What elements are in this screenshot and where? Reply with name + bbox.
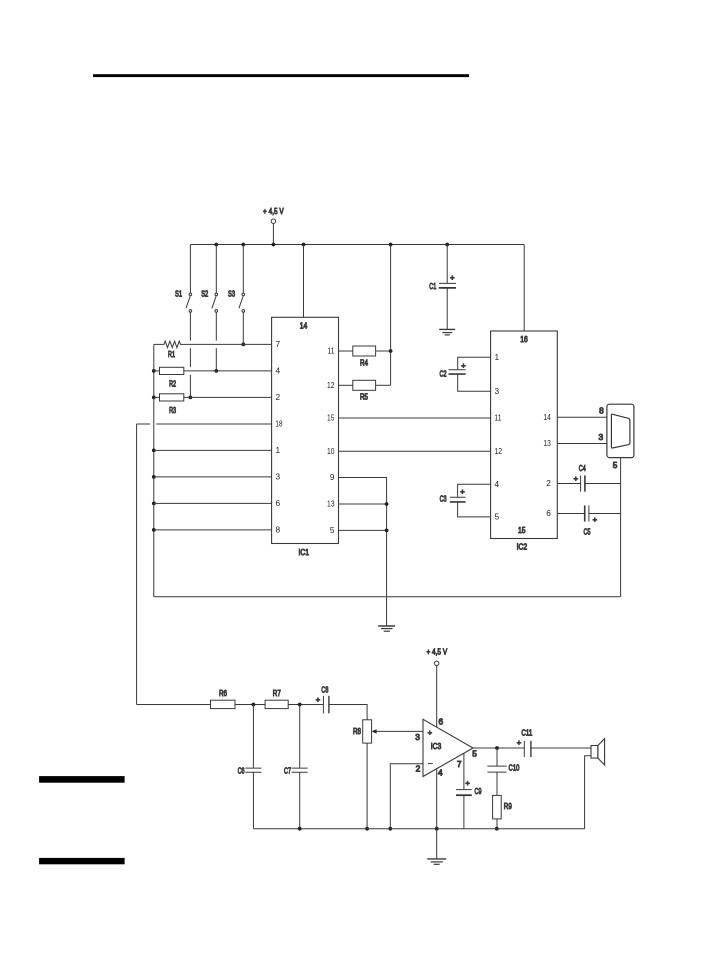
IC1 right pin labels — [327, 346, 335, 535]
wire: IC1 pin 13 to logic ground — [339, 503, 387, 505]
svg-text:R2: R2 — [169, 379, 176, 389]
connector D-inset — [611, 414, 630, 448]
resistor R2 — [160, 367, 184, 374]
capacitor C2 — [449, 370, 466, 374]
capacitor C9 — [456, 790, 472, 796]
label IC3 — [431, 741, 442, 751]
svg-text:5: 5 — [330, 525, 335, 535]
svg-text:1: 1 — [495, 352, 500, 362]
svg-text:7: 7 — [276, 339, 281, 349]
wire: pin 3 line — [154, 476, 272, 478]
label R4 — [360, 358, 368, 368]
wire: return riser to connector pin 5 — [620, 458, 622, 597]
wire: output drop to amplifier — [136, 424, 138, 705]
svg-text:+: + — [574, 474, 579, 483]
node +4,5 V supply label (top) — [263, 206, 284, 216]
wire: speaker return to ground rail — [585, 756, 591, 829]
resistor R9 — [493, 795, 502, 819]
wire: C2 to IC2 pin 3 stub — [458, 374, 491, 391]
ground (amp) — [427, 859, 446, 864]
wire: +V riser for R4 R5 — [390, 245, 392, 386]
switch S2 label — [201, 288, 208, 298]
wire: IC1 pin 15 to IC2 pin 11 — [339, 417, 491, 419]
resistor R3 — [160, 394, 184, 401]
svg-text:3: 3 — [415, 732, 420, 742]
wire: pin 2 line — [154, 396, 272, 398]
label IC2 — [517, 542, 528, 552]
wire: R7 to C8 — [288, 704, 323, 706]
label IC1 — [299, 547, 310, 557]
svg-text:C7: C7 — [284, 765, 291, 775]
polarity + of C1 — [450, 273, 455, 282]
label R9 — [504, 801, 512, 811]
ground (logic) — [378, 626, 395, 631]
capacitor C10 — [487, 748, 506, 795]
wire: IC3 output to C11 — [473, 747, 524, 749]
svg-text:+: + — [593, 515, 598, 524]
IC3 pin 2 label — [416, 763, 421, 773]
junction: C7 / ground rail — [298, 827, 302, 831]
label C11 — [521, 728, 532, 738]
junction: pin 5 / ground drop — [385, 529, 389, 533]
svg-text:13: 13 — [327, 499, 335, 509]
svg-text:6: 6 — [276, 498, 281, 508]
wire: R8 to ground rail — [366, 743, 368, 829]
svg-text:14: 14 — [300, 321, 308, 331]
resistor R6 — [211, 700, 236, 708]
wire: ground stem (amp) — [436, 829, 438, 859]
wire: pin 6 line — [154, 502, 272, 504]
junction: C6 tap — [252, 703, 256, 707]
junction: rail / S2 — [214, 243, 218, 247]
junction: bus / pin 8 line — [152, 528, 156, 532]
wire: pin 8 line — [154, 529, 272, 531]
label C8 — [321, 684, 328, 694]
capacitor C8 — [323, 696, 329, 714]
IC3 pin 5 label — [472, 748, 477, 758]
junction: feedback / ground rail — [388, 827, 392, 831]
svg-text:S3: S3 — [228, 288, 235, 298]
wire: C3 to IC2 pin 5 stub — [458, 502, 491, 517]
wire: IC1 pin 12 to R5 — [339, 384, 353, 386]
junction: R8 / ground rail — [365, 827, 369, 831]
polarity + of C8 — [316, 695, 321, 704]
capacitor C1 — [439, 283, 456, 288]
svg-text:R4: R4 — [360, 358, 368, 368]
wire: C5 to return riser — [589, 513, 621, 515]
capacitor C4 — [581, 475, 585, 491]
svg-text:C11: C11 — [521, 728, 532, 738]
svg-text:12: 12 — [327, 380, 335, 390]
node +4,5 V supply label (amp) — [426, 646, 447, 656]
wire: IC2 pin 4 stub to C3 — [458, 484, 491, 497]
wire: IC2 pin 2 to C4 — [557, 483, 580, 485]
ground (C1) — [439, 329, 455, 335]
svg-text:+: + — [450, 273, 455, 282]
label R2 — [169, 379, 176, 389]
svg-text:IC3: IC3 — [431, 741, 442, 751]
svg-text:3: 3 — [276, 472, 281, 482]
connector (jack) body — [607, 404, 634, 457]
svg-text:11: 11 — [328, 346, 335, 356]
R8 wiper arrow to IC3 pin 3 — [372, 729, 423, 733]
label R7 — [273, 688, 281, 698]
wire: R4 to riser — [376, 350, 391, 352]
connector pin 3 label — [598, 432, 603, 442]
IC3 pin 3 label — [415, 732, 420, 742]
svg-text:14: 14 — [543, 412, 551, 422]
svg-text:3: 3 — [598, 432, 603, 442]
svg-text:5: 5 — [613, 460, 618, 470]
junction: bus / R2 — [152, 369, 156, 373]
IC3 pin 4 label — [438, 767, 443, 777]
polarity + of C9 — [465, 779, 470, 788]
wire: ground rail (amp) — [253, 828, 584, 830]
IC2 left pin labels — [495, 352, 503, 522]
IC U2 (IC2) body — [491, 331, 558, 539]
capacitor C5 — [585, 505, 589, 521]
polarity + of C11 — [517, 738, 522, 747]
IC3 pin 6 label — [438, 717, 443, 727]
wire: IC2 pin 1 stub to C2 — [458, 357, 491, 369]
switch S1 label — [175, 288, 182, 298]
IC3 pin 7 label — [457, 759, 462, 769]
wire: C9 to ground rail — [463, 795, 465, 829]
wire: IC1 pin 10 to IC2 pin 12 — [339, 450, 491, 452]
title underline — [93, 74, 469, 77]
IC2 pin 16 label — [520, 334, 528, 344]
svg-text:7: 7 — [457, 759, 462, 769]
svg-text:S2: S2 — [201, 288, 208, 298]
wire: IC3 pin 4 to ground rail — [436, 769, 438, 829]
IC2 pin 15 label — [518, 525, 526, 535]
wire: IC3 pin 7 to C9 — [463, 753, 465, 789]
polarity + of C2 — [461, 361, 466, 370]
capacitor C11 — [524, 741, 531, 757]
wire: C1 to ground — [446, 288, 448, 329]
wire: power rail — [190, 244, 524, 246]
IC1 pin 14 wire — [303, 245, 305, 318]
svg-text:R1: R1 — [168, 349, 175, 359]
switch S1 — [186, 245, 192, 398]
junction: pin 13 / ground drop — [385, 502, 389, 506]
wire: R6 to R7 — [235, 704, 265, 706]
redaction bar upper-left — [39, 776, 125, 783]
connector pin 5 label — [613, 460, 618, 470]
supply terminal (top) — [271, 219, 275, 223]
wire: terminal to power rail — [272, 223, 274, 244]
polarity + of C5 — [593, 515, 598, 524]
junction: bus / pin 1 line — [152, 449, 156, 453]
label C4 — [579, 463, 586, 473]
capacitor C7 — [292, 705, 308, 829]
svg-text:R3: R3 — [169, 405, 176, 415]
junction: S2 / pin 4 line — [214, 369, 218, 373]
svg-text:11: 11 — [495, 413, 502, 423]
wire: bottom return horizontal — [154, 596, 621, 598]
junction: rail / IC1 pin 14 — [302, 243, 306, 247]
junction: riser / R4 — [389, 349, 393, 353]
label R3 — [169, 405, 176, 415]
wire: IC2 pin 13 to connector pin 3 — [557, 443, 607, 445]
wire: IC1 pin 11 to R4 — [339, 350, 353, 352]
op-amp IC3 body — [423, 719, 473, 776]
svg-text:C3: C3 — [440, 494, 447, 504]
svg-text:+: + — [461, 361, 466, 370]
svg-text:C5: C5 — [584, 526, 591, 536]
label C1 — [429, 281, 436, 291]
polarity + of C3 — [460, 487, 465, 496]
svg-text:13: 13 — [543, 438, 551, 448]
redaction bar lower-left — [39, 858, 125, 864]
resistor R5 — [353, 380, 376, 390]
label C10 — [509, 763, 520, 773]
svg-text:C6: C6 — [238, 765, 245, 775]
label C6 — [238, 765, 245, 775]
IC3 + input mark — [428, 728, 433, 737]
wire: pin 18 line (hops left bus) — [137, 423, 272, 425]
svg-text:4: 4 — [438, 767, 443, 777]
label R5 — [360, 391, 368, 401]
svg-text:+: + — [428, 728, 433, 737]
svg-text:16: 16 — [520, 334, 528, 344]
svg-text:5: 5 — [495, 512, 500, 522]
svg-text:5: 5 — [472, 748, 477, 758]
wire: pin 4 line — [154, 370, 272, 372]
wire: C11 to speaker — [531, 747, 591, 749]
svg-text:10: 10 — [327, 446, 335, 456]
svg-text:8: 8 — [276, 525, 281, 535]
svg-text:8: 8 — [599, 406, 604, 416]
switch S2 — [212, 245, 218, 371]
supply terminal (amp) — [435, 661, 439, 665]
svg-text:15: 15 — [327, 413, 335, 423]
junction: rail / C1 — [445, 243, 449, 247]
wire: IC1 pin 9 to logic ground — [339, 478, 387, 626]
label C5 — [584, 526, 591, 536]
svg-text:6: 6 — [546, 508, 551, 518]
wire: IC1 pin 5 to logic ground — [339, 529, 387, 531]
svg-text:9: 9 — [330, 472, 335, 482]
label C9 — [475, 786, 482, 796]
IC2 right pin labels — [543, 412, 551, 518]
capacitor C6 — [245, 705, 261, 829]
label C3 — [440, 494, 447, 504]
switch S3 label — [228, 288, 235, 298]
svg-text:2: 2 — [546, 478, 551, 488]
svg-text:R8: R8 — [353, 726, 361, 736]
svg-text:+: + — [460, 487, 465, 496]
junction: rail / R4 R5 riser — [389, 243, 393, 247]
svg-text:+: + — [316, 695, 321, 704]
wire: C8 to R8 top — [329, 705, 367, 720]
wire: rail drop to IC2 pin 16 — [523, 245, 525, 332]
svg-text:18: 18 — [276, 419, 283, 429]
svg-text:R5: R5 — [360, 391, 368, 401]
svg-text:C2: C2 — [440, 369, 447, 379]
svg-text:12: 12 — [495, 446, 503, 456]
svg-text:1: 1 — [276, 445, 281, 455]
svg-text:2: 2 — [416, 763, 421, 773]
IC3 - input mark — [428, 763, 433, 765]
junction: bus / pin 6 line — [152, 502, 156, 506]
svg-text:R6: R6 — [219, 688, 227, 698]
wire: R9 to ground rail — [496, 819, 498, 829]
resistor R7 — [265, 700, 288, 708]
wire: R5 to riser — [376, 384, 391, 386]
resistor R4 — [353, 346, 376, 356]
svg-text:C4: C4 — [579, 463, 586, 473]
svg-text:C1: C1 — [429, 281, 436, 291]
junction: pin 4 / ground rail — [435, 827, 439, 831]
resistor R1 (zigzag) — [154, 341, 272, 348]
junction: rail / supply terminal — [272, 243, 276, 247]
label R1 — [168, 349, 175, 359]
speaker — [591, 739, 605, 765]
wire: C4 to return riser — [585, 483, 621, 485]
svg-text:15: 15 — [518, 525, 526, 535]
wire: IC2 pin 6 to C5 — [557, 513, 584, 515]
junction: bus / R3 — [152, 396, 156, 400]
svg-text:C10: C10 — [509, 763, 520, 773]
svg-text:+: + — [517, 738, 522, 747]
svg-text:2: 2 — [276, 392, 281, 402]
svg-text:IC2: IC2 — [517, 542, 528, 552]
polarity + of C4 — [574, 474, 579, 483]
junction: rail / S3 — [241, 243, 245, 247]
IC1 left pin labels — [276, 339, 283, 534]
svg-text:+ 4,5 V: + 4,5 V — [263, 206, 284, 216]
switch S3 — [239, 245, 245, 345]
svg-text:R7: R7 — [273, 688, 281, 698]
capacitor C3 — [450, 497, 466, 502]
label C2 — [440, 369, 447, 379]
svg-text:C8: C8 — [321, 684, 328, 694]
wire: bus drop to R6 — [137, 704, 211, 706]
wire: rail to C1 — [446, 245, 448, 284]
svg-text:R9: R9 — [504, 801, 512, 811]
IC1 pin 14 label — [300, 321, 308, 331]
wire: IC3 pin 2 feedback to ground rail — [390, 764, 423, 829]
junction: R9 / ground rail — [495, 827, 499, 831]
svg-text:4: 4 — [276, 366, 281, 376]
svg-text:+: + — [465, 779, 470, 788]
svg-text:C9: C9 — [475, 786, 482, 796]
potentiometer R8 — [363, 720, 372, 743]
wire: pin 1 line — [154, 449, 272, 451]
wire: left bus vertical — [153, 344, 155, 596]
junction: S1 / pin 2 line — [189, 396, 193, 400]
svg-text:IC1: IC1 — [299, 547, 310, 557]
svg-text:4: 4 — [495, 479, 500, 489]
junction: output / C10 — [495, 746, 499, 750]
junction: S3 / pin 7 line — [241, 343, 245, 347]
svg-text:S1: S1 — [175, 288, 182, 298]
label C7 — [284, 765, 291, 775]
wire: supply to IC3 pin 6 — [436, 666, 438, 728]
junction: bus / pin 3 line — [152, 475, 156, 479]
connector pin 8 label — [599, 406, 604, 416]
junction: C7 tap — [298, 703, 302, 707]
label R6 — [219, 688, 227, 698]
svg-text:6: 6 — [438, 717, 443, 727]
IC U1 (IC1) body — [272, 317, 339, 543]
svg-text:+ 4,5 V: + 4,5 V — [426, 646, 447, 656]
svg-text:3: 3 — [495, 386, 500, 396]
wire: IC2 pin 14 to connector pin 8 — [557, 416, 607, 418]
label R8 — [353, 726, 361, 736]
